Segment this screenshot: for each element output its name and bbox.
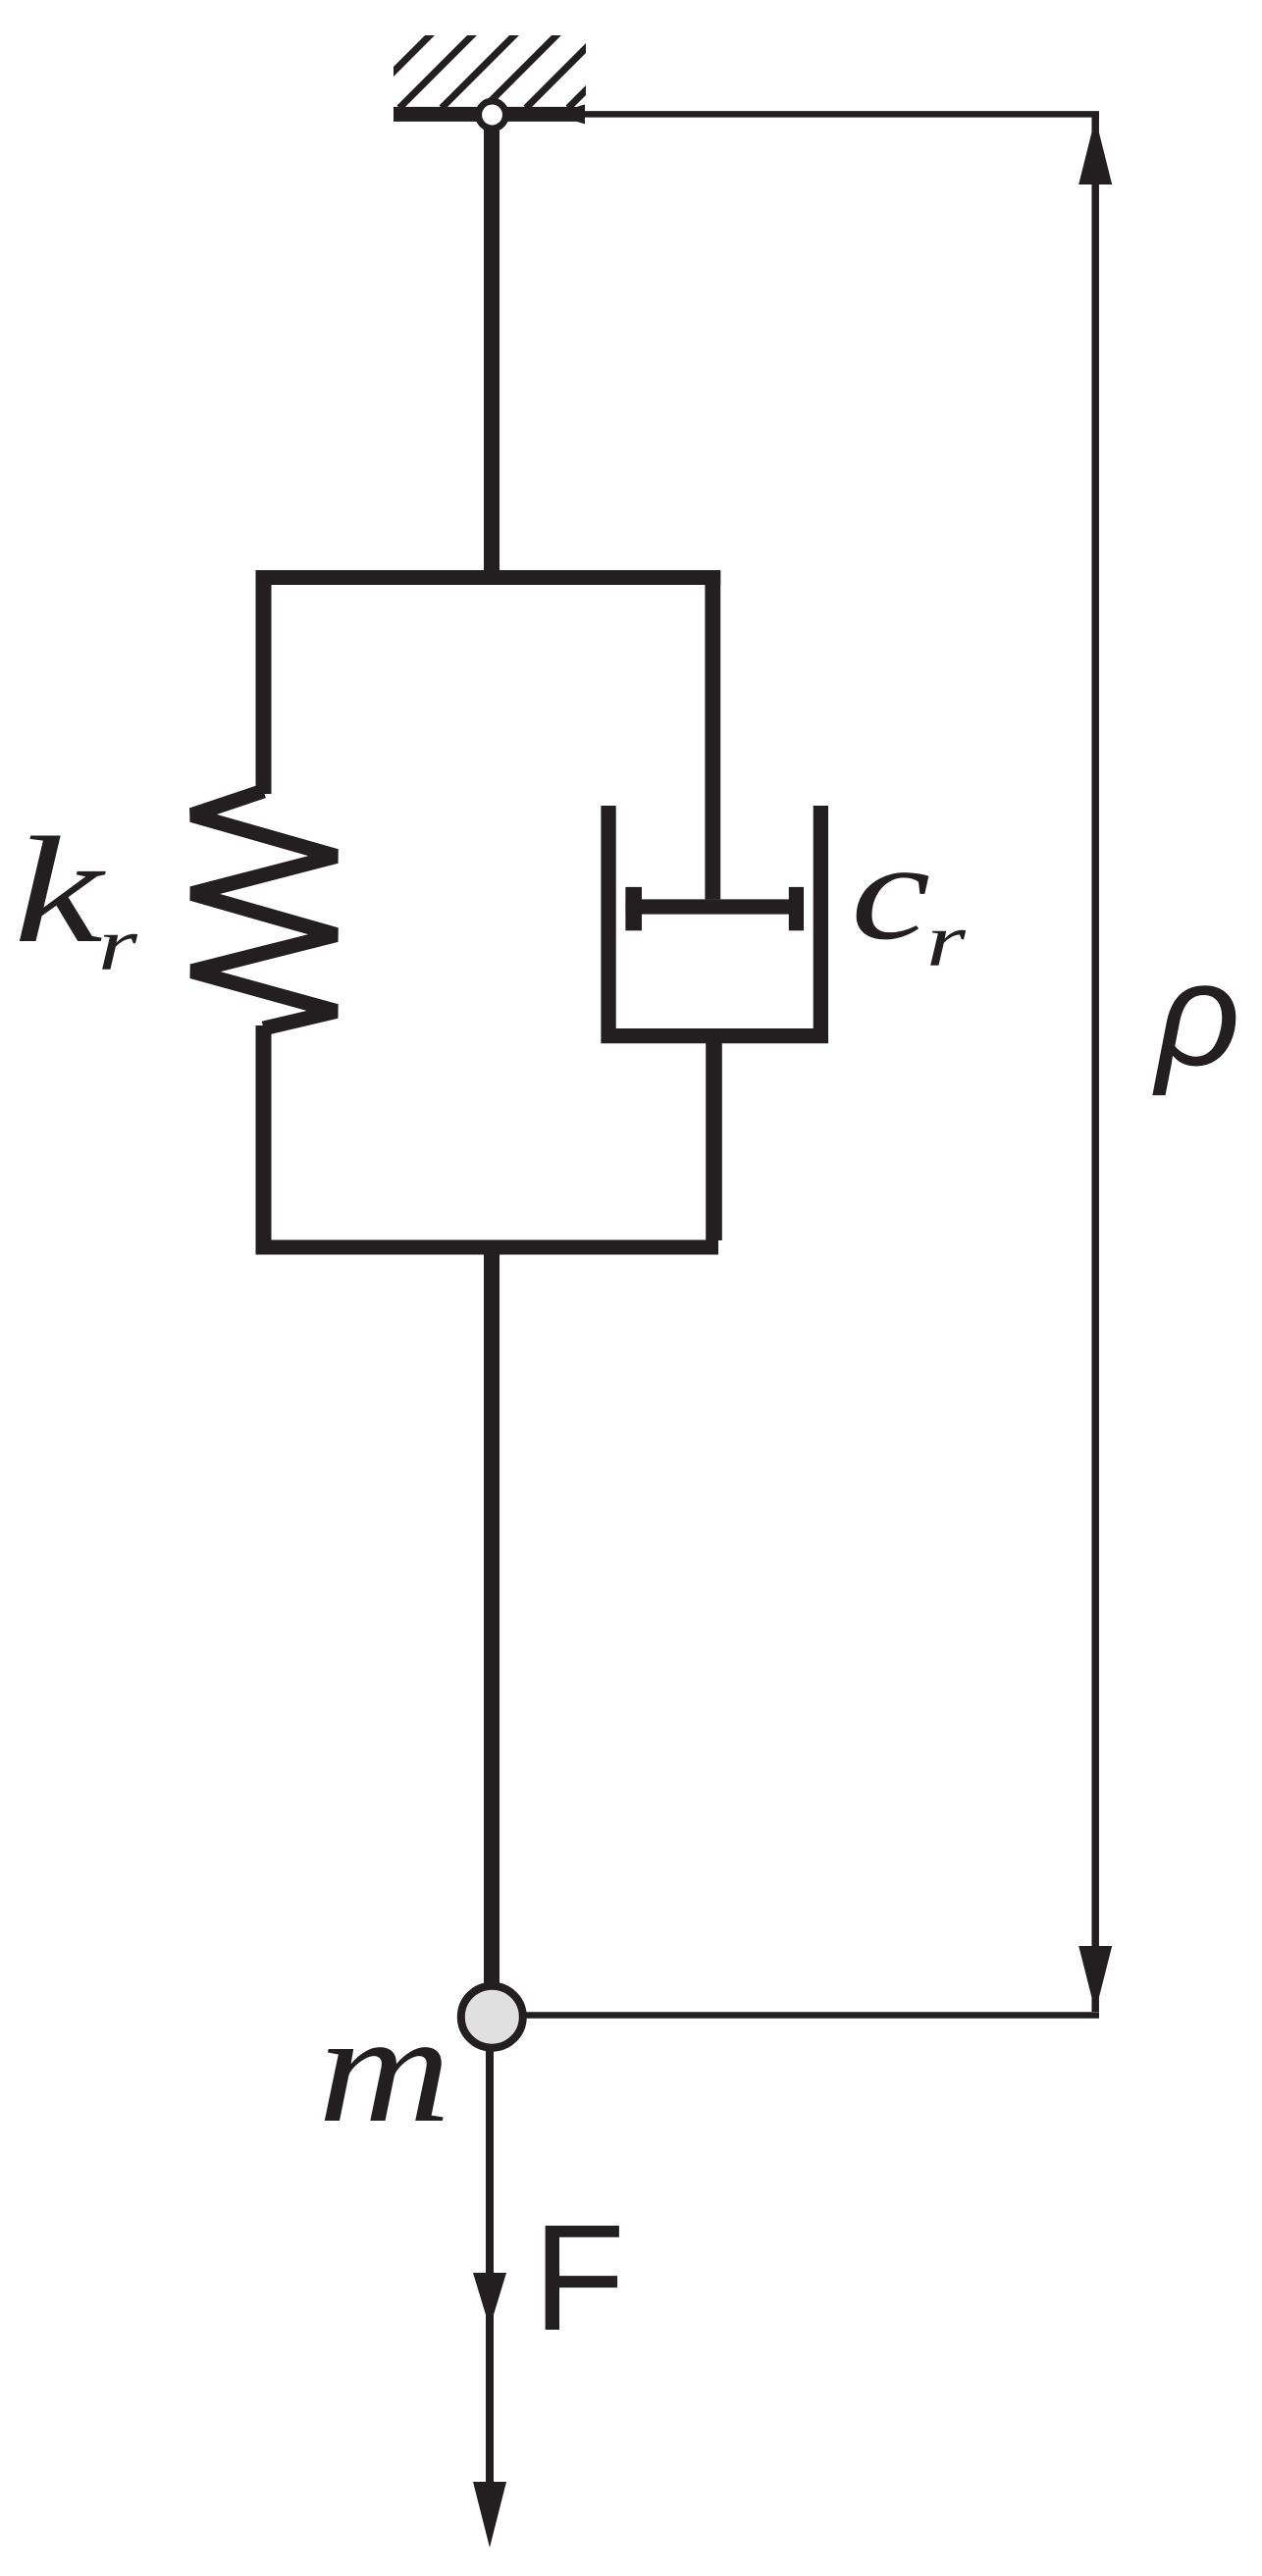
force mid arrowhead — [473, 2273, 506, 2328]
svg-text:c: c — [851, 815, 930, 969]
top dimension line — [559, 111, 1099, 118]
wire: left bar lower (below spring) — [256, 1025, 272, 1255]
damper piston right cap — [789, 887, 804, 930]
svg-text:m: m — [318, 1981, 450, 2154]
wire: rod from pin to box top — [484, 114, 500, 570]
svg-text:F: F — [533, 2193, 625, 2362]
force tip arrowhead — [473, 2482, 506, 2548]
wire: piston rod (right branch from top bar) — [705, 570, 720, 899]
damper cylinder cup c_r — [608, 806, 820, 1036]
bottom dimension line at mass — [526, 2012, 1099, 2019]
wire: rod from box bottom to mass — [484, 1255, 500, 1983]
dimension arrowhead left (toward support) — [552, 104, 585, 124]
box top bar — [256, 570, 721, 585]
svg-text:k: k — [14, 807, 107, 975]
pin joint at support — [479, 101, 506, 129]
svg-text:r: r — [926, 900, 967, 982]
wire: left bar upper (above spring) — [256, 570, 272, 794]
wire: cup stem down to bottom bar — [706, 1042, 722, 1240]
svg-text:ρ: ρ — [1152, 931, 1240, 1096]
rho top arrowhead — [1078, 118, 1112, 184]
force line F — [486, 2051, 494, 2485]
spring k_r — [192, 791, 337, 1028]
mass m (ball) — [461, 1986, 523, 2048]
box bottom bar — [256, 1240, 719, 1255]
damper piston plate — [625, 899, 804, 914]
ground baseline — [394, 107, 576, 122]
rho bottom arrowhead — [1078, 1946, 1112, 2012]
wall hatching — [357, 31, 645, 108]
svg-text:r: r — [98, 904, 138, 986]
damper piston left cap — [625, 887, 642, 930]
dimension line rho (vertical) — [1091, 115, 1099, 2012]
